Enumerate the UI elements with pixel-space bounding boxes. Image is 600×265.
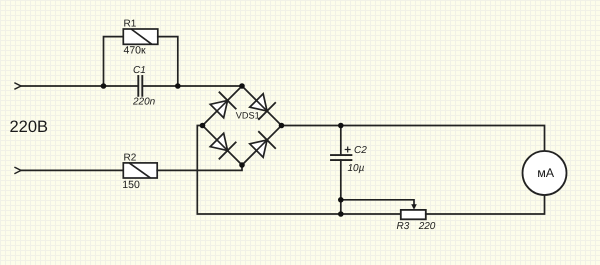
svg-text:10µ: 10µ [348,163,365,174]
node: top wire / R1 branch left [101,83,107,89]
node: C2 bottom / bottom rail [338,211,344,217]
capacitor C2 [331,126,351,215]
node: bridge left [200,123,206,129]
wire: bottom input to R2 [21,169,123,171]
wire: R1 branch left riser [104,37,124,86]
wire: R3 right terminal to ammeter bottom [426,195,545,214]
wire: top input to C1 left plate [21,85,138,87]
svg-text:VDS1: VDS1 [236,110,260,120]
svg-text:220В: 220В [10,118,49,136]
wire: bridge left node down to bottom rail, to R3 left terminal [197,126,400,215]
ammeter PA1 [523,151,567,195]
wire: R2 to bridge bottom node [157,165,242,170]
svg-text:470к: 470к [124,45,147,57]
node: bridge bottom [239,162,245,168]
svg-text:мА: мА [537,166,555,180]
svg-text:C1: C1 [133,65,146,76]
diode VD2 (top node to right node) [248,92,275,119]
wire: bridge diamond [203,86,282,165]
wire: bridge right node to top rail, down to ammeter [282,126,545,152]
junction dots [101,83,344,217]
svg-text:220: 220 [418,221,436,232]
wiper arrow of R3 [411,204,417,209]
node: top wire / R1 branch right [175,83,181,89]
svg-text:R1: R1 [124,19,137,30]
potentiometer R3 [401,210,426,219]
wire: R1 branch right riser [158,37,178,86]
svg-text:R3: R3 [397,221,410,232]
diode VD3 (left node to bottom node) [209,132,236,159]
svg-text:R2: R2 [124,153,137,164]
svg-text:150: 150 [122,179,140,191]
capacitor C1 [138,76,142,96]
node: top rail / C2 [338,123,344,129]
diode VD4 (bottom node to right node) [248,132,275,159]
svg-text:C2: C2 [354,145,367,156]
node: bridge top [239,83,245,89]
diode VD1 (left node to top node) [209,92,236,119]
wire: C2 bottom tap to R3 wiper [341,200,414,205]
svg-text:220n: 220n [132,96,156,107]
resistor R2 [123,163,157,178]
node: bridge right [279,123,285,129]
node: C2 bottom / wiper rail [338,197,344,203]
input terminal arrow (220V line 1) [15,83,21,89]
wire: C1 right plate to bridge top node [143,85,242,87]
resistor R1 [123,29,158,44]
polarity plus sign of C2 [345,147,350,152]
input terminal arrow (220V line 2) [15,167,21,173]
